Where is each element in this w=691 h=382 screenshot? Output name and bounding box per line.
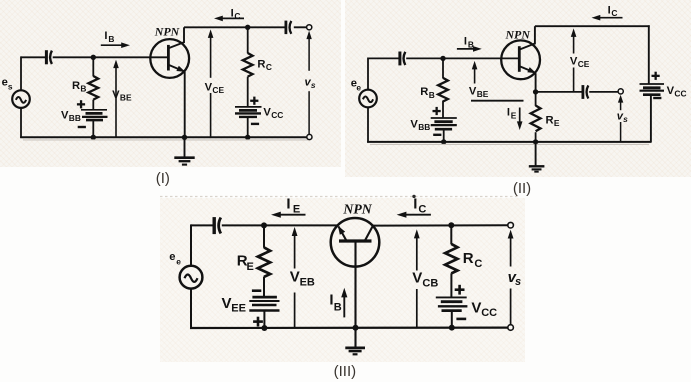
- plus V_CC II: [652, 72, 660, 80]
- label R_E II: [546, 114, 560, 128]
- capacitor C-in II: [400, 52, 405, 66]
- wire left vertical lower III: [190, 289, 192, 329]
- minus V_CC III: [456, 318, 466, 321]
- label I_C: [231, 7, 241, 21]
- plus V_CC III: [455, 285, 465, 295]
- label V_BB: [61, 109, 81, 123]
- wire base II: [406, 57, 519, 59]
- wire R_B top II: [442, 58, 444, 78]
- node emitter II: [533, 89, 538, 94]
- arrow I_B III: [341, 288, 347, 318]
- svg-text:V: V: [112, 89, 120, 101]
- node base bottom III: [353, 325, 359, 331]
- capacitor C-in III: [214, 217, 221, 234]
- label v_s II: [617, 111, 628, 125]
- plus V_BB: [77, 100, 85, 108]
- plus V_BB II: [433, 107, 441, 115]
- minus V_BB II: [433, 134, 441, 136]
- label v_s I: [305, 76, 316, 90]
- label V_BB II: [410, 118, 430, 132]
- svg-text:s: s: [515, 276, 521, 288]
- node emitter bottom I: [182, 135, 187, 140]
- svg-text:C: C: [418, 203, 426, 215]
- wire cap to terminal II: [589, 91, 618, 93]
- svg-text:NPN: NPN: [504, 27, 530, 41]
- label R_B II: [420, 86, 434, 100]
- label e_e II: [351, 77, 362, 92]
- svg-text:C: C: [474, 258, 482, 270]
- svg-text:CC: CC: [674, 88, 686, 98]
- wire V_EE bottom III: [263, 311, 265, 330]
- wire emitter II: [535, 73, 537, 92]
- label V_CB III: [412, 270, 438, 290]
- label V_CE I: [205, 81, 225, 95]
- svg-text:C: C: [266, 62, 272, 72]
- label e_e III: [169, 251, 181, 266]
- svg-text:s: s: [8, 82, 13, 92]
- arrow v_s I: [306, 31, 311, 134]
- scan panel behind circuit I: [0, 0, 341, 167]
- ground I: [174, 137, 194, 164]
- wire R_E top III: [263, 225, 265, 247]
- arrow V_CE II: [571, 28, 577, 91]
- svg-text:I: I: [413, 195, 417, 212]
- svg-text:e: e: [169, 251, 175, 263]
- label I_C II: [608, 4, 618, 18]
- arrow I_E II: [517, 108, 523, 131]
- wire left vertical lower: [20, 108, 22, 138]
- top rail III right: [373, 224, 508, 226]
- svg-text:I: I: [104, 30, 107, 42]
- plus V_CC I: [250, 97, 258, 105]
- wire left vertical upper: [20, 56, 22, 90]
- reference line V_BE II: [471, 100, 524, 102]
- ac source e_e II: [359, 90, 377, 108]
- svg-text:BB: BB: [418, 122, 430, 132]
- rail collector I right of cap: [294, 26, 307, 28]
- terminal out bottom III: [508, 325, 514, 331]
- wire left vertical lower II: [367, 107, 369, 142]
- wire R_E top II: [535, 92, 537, 106]
- svg-text:(II): (II): [513, 180, 531, 197]
- svg-text:E: E: [293, 203, 300, 215]
- wire emitter I: [184, 72, 186, 139]
- wire V_BB bottom II: [443, 130, 445, 142]
- svg-text:I: I: [608, 4, 611, 16]
- svg-text:B: B: [429, 90, 435, 100]
- node V_BB bottom: [91, 135, 96, 140]
- battery V_CC I: [235, 107, 262, 117]
- wire R_B top: [92, 57, 94, 76]
- svg-text:CC: CC: [481, 307, 497, 319]
- ground III: [345, 328, 365, 355]
- wire collector II: [534, 26, 536, 44]
- svg-text:BE: BE: [477, 89, 489, 99]
- wire V_CC bottom I: [247, 118, 249, 138]
- minus V_EE III: [252, 289, 261, 292]
- svg-text:BE: BE: [120, 92, 132, 102]
- wire right vertical lower II: [650, 96, 652, 143]
- resistor R_B: [88, 76, 98, 100]
- resistor R_C: [243, 53, 253, 77]
- resistor R_C III: [445, 244, 457, 273]
- svg-text:V: V: [412, 270, 422, 287]
- label v_s III: [508, 269, 522, 288]
- svg-text:s: s: [623, 114, 628, 124]
- svg-text:e: e: [2, 77, 8, 89]
- battery V_CC III: [436, 297, 468, 310]
- label R_C: [257, 59, 272, 73]
- rail collector I left: [184, 26, 285, 28]
- terminal out bottom I: [307, 134, 312, 139]
- wire R_E to V_EE III: [263, 277, 265, 298]
- minus V_CC II: [653, 97, 661, 99]
- label e_s: [2, 77, 13, 92]
- arrow V_CB III: [414, 229, 420, 327]
- wire base III: [354, 241, 356, 328]
- node R_C top III: [448, 222, 454, 228]
- wire right vertical upper II: [648, 25, 650, 84]
- node V_BB bottom II: [441, 139, 446, 144]
- scan panel behind circuit II: [345, 0, 691, 177]
- wire top left: [21, 56, 45, 58]
- label V_BE: [112, 89, 132, 103]
- wire R_B to V_BB II: [442, 101, 444, 119]
- capacitor C-out II: [583, 85, 588, 99]
- arrow v_s III: [508, 230, 514, 325]
- svg-text:(III): (III): [334, 363, 357, 380]
- ac source e_s: [12, 90, 30, 108]
- svg-text:C: C: [611, 8, 617, 18]
- wire R_E bottom II: [535, 132, 537, 142]
- svg-text:BB: BB: [69, 113, 81, 123]
- node base II: [440, 56, 445, 61]
- bottom rail III: [190, 327, 508, 330]
- bottom rail I: [20, 136, 307, 138]
- svg-text:C: C: [234, 11, 240, 21]
- ac source e_e III: [180, 266, 203, 289]
- arrow v_s II: [618, 95, 623, 142]
- label V_EE III: [222, 295, 246, 315]
- svg-text:NPN: NPN: [154, 25, 180, 39]
- label I_B III: [329, 291, 341, 313]
- terminal out II: [618, 89, 623, 94]
- svg-text:V: V: [222, 295, 232, 312]
- arrow V_CE I: [208, 29, 214, 137]
- top rail II: [535, 25, 650, 27]
- arrow I_C: [214, 16, 244, 22]
- resistor R_B II: [438, 78, 448, 102]
- node R_E top III: [261, 222, 267, 228]
- ground II: [529, 142, 545, 172]
- arrow I_B II: [457, 46, 482, 52]
- svg-text:V: V: [410, 118, 418, 130]
- svg-text:V: V: [667, 85, 675, 97]
- svg-text:V: V: [471, 299, 481, 316]
- node collector I: [245, 25, 250, 30]
- svg-text:V: V: [469, 85, 477, 97]
- svg-text:E: E: [554, 118, 560, 128]
- rail shadow I: [23, 139, 308, 141]
- battery V_EE III: [249, 297, 279, 310]
- wire cap to node III: [222, 224, 338, 226]
- label I_C III: [413, 195, 426, 215]
- arrow I_E III: [271, 212, 306, 218]
- transistor Q3: [331, 218, 380, 267]
- label V_CE II: [570, 55, 590, 69]
- wire emitter to cap II: [536, 91, 582, 93]
- svg-text:R: R: [420, 86, 428, 98]
- label I_B: [104, 30, 114, 44]
- label I_E III: [286, 195, 300, 215]
- label I_B II: [464, 36, 474, 50]
- svg-text:V: V: [263, 106, 271, 118]
- node V_CC bottom III: [449, 325, 455, 331]
- wire top left III: [191, 224, 213, 226]
- wire R_C top III: [450, 225, 452, 244]
- node R_E bottom II: [533, 139, 538, 144]
- svg-text:CC: CC: [271, 110, 283, 120]
- capacitor C-out I: [286, 21, 291, 34]
- arrow I_B: [101, 42, 130, 48]
- bottom rail II: [367, 141, 651, 143]
- terminal out top I: [307, 25, 312, 30]
- label R_E III: [237, 253, 254, 274]
- resistor R_E II: [531, 106, 541, 132]
- label V_BE II: [469, 85, 489, 99]
- svg-text:V: V: [570, 55, 578, 67]
- label V_EB III: [290, 269, 315, 289]
- battery V_BB II: [431, 118, 457, 129]
- svg-text:V: V: [205, 81, 213, 93]
- transistor Q1: [150, 39, 189, 78]
- node V_CC bottom I: [245, 135, 250, 140]
- svg-text:(I): (I): [156, 170, 170, 187]
- svg-text:EB: EB: [300, 276, 315, 288]
- svg-text:V: V: [290, 269, 300, 286]
- arrow V_BE: [113, 60, 119, 137]
- svg-text:V: V: [61, 109, 69, 121]
- scan artifact dotted line above circuit III: [160, 196, 520, 198]
- plus V_EE III: [253, 317, 263, 327]
- capacitor C-in I: [46, 50, 52, 64]
- arrow I_C II: [592, 15, 623, 21]
- label V_CC I: [263, 106, 283, 120]
- svg-text:I: I: [464, 36, 467, 48]
- resistor R_E III: [258, 247, 270, 276]
- scan artifact dot: [412, 195, 415, 198]
- battery V_CC II: [640, 84, 665, 95]
- scan panel behind circuit III: [160, 198, 525, 362]
- wire R_C to V_CC III: [450, 273, 452, 297]
- minus V_BB: [78, 126, 86, 128]
- svg-text:B: B: [334, 302, 342, 314]
- wire R_C to V_CC: [247, 77, 249, 107]
- svg-text:CE: CE: [212, 85, 224, 95]
- svg-text:R: R: [257, 59, 265, 71]
- node base I: [91, 55, 96, 60]
- minus V_CC I: [251, 123, 259, 125]
- label R_C III: [463, 250, 483, 270]
- wire R_B to V_BB: [92, 100, 94, 110]
- arrow V_EB III: [292, 227, 298, 328]
- label R_B: [72, 80, 86, 94]
- wire R_C top: [247, 27, 249, 53]
- svg-text:e: e: [176, 256, 181, 266]
- svg-text:R: R: [463, 250, 474, 267]
- label V_CC III: [471, 299, 497, 319]
- label I_E II: [507, 106, 517, 120]
- terminal out top III: [508, 222, 514, 228]
- svg-text:E: E: [511, 110, 517, 120]
- svg-text:s: s: [311, 80, 316, 90]
- svg-text:E: E: [247, 261, 254, 273]
- svg-text:e: e: [356, 82, 361, 92]
- battery V_BB: [81, 110, 108, 120]
- arrow V_BE II: [472, 61, 478, 84]
- arrow I_C III: [397, 212, 431, 218]
- wire top left II: [368, 57, 399, 59]
- svg-text:I: I: [507, 106, 510, 118]
- wire collector I: [183, 27, 185, 43]
- svg-text:CB: CB: [422, 277, 438, 289]
- svg-text:I: I: [286, 195, 290, 212]
- svg-text:CE: CE: [578, 59, 590, 69]
- svg-text:EE: EE: [231, 303, 246, 315]
- svg-text:B: B: [80, 83, 86, 93]
- wire left vertical upper II: [367, 58, 369, 90]
- wire base I: [53, 56, 168, 58]
- label V_CC II: [667, 85, 687, 99]
- svg-text:R: R: [546, 114, 554, 126]
- transistor Q2: [501, 40, 540, 79]
- svg-text:R: R: [72, 80, 80, 92]
- svg-text:NPN: NPN: [342, 202, 372, 217]
- wire V_BB bottom: [92, 121, 94, 138]
- wire V_CC bottom III: [451, 311, 453, 329]
- wire left vertical upper III: [190, 224, 192, 266]
- svg-text:B: B: [108, 34, 114, 44]
- node V_EE bottom III: [261, 325, 267, 331]
- rail shadow II: [370, 143, 649, 145]
